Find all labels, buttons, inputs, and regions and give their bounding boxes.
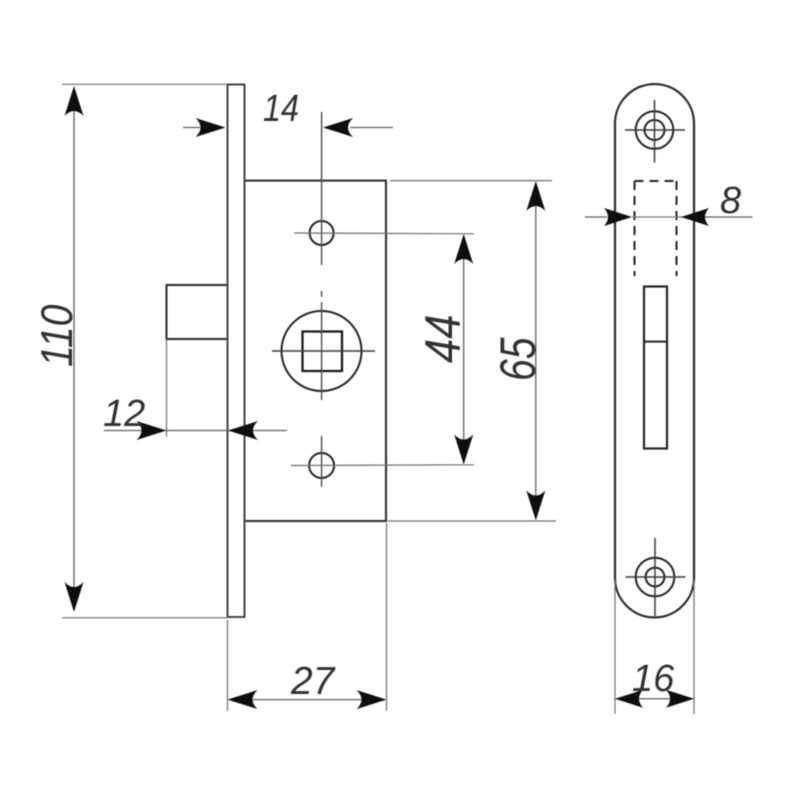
svg-text:110: 110 bbox=[32, 305, 82, 367]
dim 44 line bbox=[463, 236, 465, 463]
latch slot rectangle bbox=[644, 287, 667, 449]
hub crosshair horizontal bbox=[272, 350, 375, 352]
dim 65 arrow down bbox=[526, 491, 545, 521]
svg-text:65: 65 bbox=[491, 337, 547, 381]
dim 27 ext line right bbox=[386, 523, 388, 711]
bottom hole crosshair / ext line to 44 dim bbox=[291, 464, 474, 467]
dim 12 arrow right-pointing bbox=[137, 421, 167, 440]
ext line lock top to 65 dim bbox=[390, 180, 552, 182]
dim 27 arrow left-pointing bbox=[228, 690, 258, 709]
centerline vertical bbox=[321, 112, 323, 487]
dim 14 arrow left-pointing bbox=[323, 118, 353, 137]
dim 8 arrow left-pointing bbox=[681, 208, 709, 226]
dim 8 right tail bbox=[681, 216, 753, 218]
top hole crosshair / ext line to 44 dim bbox=[294, 232, 474, 235]
bottom screw hole inner bbox=[646, 568, 665, 587]
dim 8 left tail bbox=[585, 216, 607, 218]
dim 16 ext lines bbox=[615, 580, 694, 714]
dim 65 arrow up bbox=[526, 181, 545, 211]
lock body bbox=[246, 181, 387, 521]
dim 44 arrow up bbox=[454, 234, 473, 264]
latch bolt bbox=[167, 285, 227, 339]
dim 65 line bbox=[535, 183, 537, 518]
svg-text:27: 27 bbox=[290, 660, 336, 703]
svg-text:16: 16 bbox=[632, 658, 675, 700]
dim 16 arrow left-pointing bbox=[615, 690, 643, 708]
dim 14 line left tail bbox=[183, 127, 200, 129]
svg-text:14: 14 bbox=[263, 88, 299, 130]
top hole circle bbox=[310, 221, 334, 245]
svg-text:8: 8 bbox=[720, 180, 741, 222]
dim 27 ext line left bbox=[227, 620, 229, 711]
hub outer circle bbox=[282, 311, 362, 391]
top screw hole inner bbox=[645, 120, 665, 140]
strike plate front view outline bbox=[615, 84, 694, 617]
faceplate side view bbox=[228, 85, 245, 618]
dim 44 arrow down bbox=[454, 435, 473, 465]
dim 27 arrow right-pointing bbox=[357, 690, 387, 709]
latch slot divider bbox=[644, 341, 667, 343]
hub square bbox=[303, 332, 343, 372]
dim 27 line bbox=[229, 699, 385, 701]
dim 8 middle line bbox=[632, 216, 681, 218]
dim 110 bottom ext line bbox=[62, 617, 228, 619]
dim 12 line bbox=[104, 430, 287, 432]
dim 8 arrow right-pointing bbox=[604, 208, 632, 226]
svg-text:44: 44 bbox=[415, 315, 470, 363]
dim 12 ext line below latch bbox=[166, 339, 168, 437]
dim 110 line bbox=[73, 88, 75, 610]
dim 110 top ext line bbox=[62, 83, 228, 85]
dim 110 arrow down bbox=[65, 582, 84, 612]
ext line lock bottom to 65 dim bbox=[388, 520, 556, 522]
dim 16 line bbox=[616, 698, 693, 700]
dim 16 arrow right-pointing bbox=[666, 690, 694, 708]
bottom hole circle bbox=[309, 453, 334, 478]
top screw hole outer bbox=[636, 111, 674, 149]
dim 14 arrow right-pointing bbox=[196, 118, 226, 137]
bottom screw hole outer bbox=[636, 558, 675, 597]
dim 12 arrow left-pointing bbox=[228, 421, 258, 440]
dim 110 arrow up bbox=[65, 86, 84, 116]
dim 14 right tail bbox=[350, 127, 393, 129]
top screw crosshair bbox=[625, 100, 685, 163]
dashed latch cutout bbox=[635, 181, 677, 276]
svg-text:12: 12 bbox=[103, 393, 145, 435]
bottom screw crosshair bbox=[626, 538, 686, 616]
